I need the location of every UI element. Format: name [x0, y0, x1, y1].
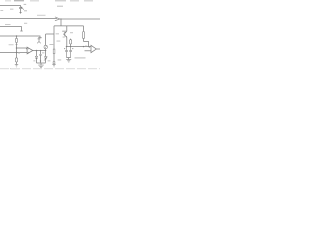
wire branch D1 [36, 51, 38, 57]
diode D3 [53, 62, 55, 64]
bottom faint line [10, 68, 20, 70]
wire vcc drop [60, 19, 62, 26]
wire U2 + input rail [67, 46, 92, 48]
ground [66, 60, 71, 62]
arrowhead [55, 17, 60, 21]
wire Q1 collector [66, 26, 68, 31]
resistor R2 [15, 58, 17, 62]
capacitor C6 [69, 47, 72, 58]
opamp U2 polarity marks [89, 46, 91, 48]
junction dot [40, 60, 41, 61]
wire opamp U1 + input [17, 47, 28, 50]
wire long vertical [53, 26, 55, 49]
ground [38, 65, 43, 68]
polarity plus C5 [64, 48, 65, 49]
capacitor C4 [39, 54, 41, 55]
capacitor C2 [38, 38, 42, 39]
wire C1 lower lead [20, 9, 22, 13]
resistor R4 [82, 32, 84, 39]
junction dots [16, 35, 18, 37]
wire signal line with arrow [0, 18, 57, 20]
resistor R1 [15, 38, 17, 42]
resistor R3 [70, 40, 72, 44]
ground [15, 65, 18, 67]
diode D1 [35, 56, 37, 58]
node open terminal [20, 30, 22, 32]
wire top-left rail [0, 6, 21, 8]
wire branch C4 [40, 51, 42, 55]
node terminal bar below C1 [20, 13, 22, 14]
tick on R1 lead [16, 44, 18, 46]
wire Q1 emitter [66, 37, 68, 46]
transistor Q1 [63, 31, 67, 37]
wire ground bus right [67, 58, 71, 60]
transistor Q2 legs [37, 39, 41, 43]
polarity plus C6 [72, 48, 73, 49]
capacitor C5 [65, 47, 68, 58]
trimmer arrow on C1 [21, 7, 24, 10]
wire R4 leads [83, 26, 85, 42]
wire U1 output rail [33, 50, 46, 52]
wire stepped line [0, 27, 22, 31]
op-amp U1 [27, 47, 33, 54]
wire signal line right part [60, 18, 100, 20]
wire R3 leads [70, 39, 72, 47]
ground [52, 65, 55, 67]
capacitor C1 [19, 8, 22, 9]
wire R2 leads [16, 53, 18, 65]
transistor Q3 envelope [44, 45, 47, 48]
wire R4 to U2 [84, 42, 89, 47]
faint text marks [0, 0, 93, 61]
wire U2 output [96, 48, 100, 50]
crystal X1 [53, 49, 55, 54]
wire ground bus left-bottom [37, 63, 46, 65]
diode D2 variable [45, 57, 47, 59]
op-amp U2 [91, 45, 96, 52]
wire R1 leads [16, 36, 18, 53]
opamp U1 polarity marks [28, 49, 29, 52]
wire U2 - input [85, 50, 92, 52]
wire center column top [46, 33, 54, 35]
wire mid rail [0, 36, 40, 38]
wire right top rail [54, 25, 84, 27]
wire opamp U1 - input rail [0, 52, 27, 54]
